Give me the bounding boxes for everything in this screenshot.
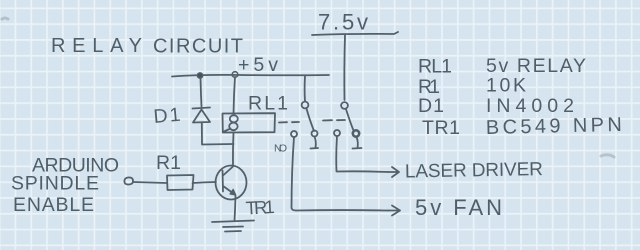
node input terminal — [124, 177, 133, 184]
diode D1 triangle — [193, 110, 210, 123]
transistor TR1 body — [216, 166, 247, 200]
wire +5v rail — [172, 75, 329, 77]
switch S2 NO terminal — [334, 130, 340, 136]
svg-text:BC549 NPN: BC549 NPN — [486, 114, 622, 139]
switch S1 NC stub — [311, 137, 319, 149]
wire S1 NO to fan arrow — [292, 137, 389, 211]
arrowhead 5v fan — [388, 206, 400, 216]
svg-text:ENABLE: ENABLE — [13, 194, 94, 216]
relay coil RL1 box — [223, 113, 276, 132]
switch S2 common terminal — [341, 102, 348, 109]
transistor TR1 collector stroke — [223, 167, 233, 176]
svg-text:NO: NO — [274, 143, 287, 155]
svg-text:+5v: +5v — [238, 54, 278, 76]
wire dashed actuation link — [279, 120, 345, 123]
pencil smudge top-left — [2, 18, 8, 19]
switch S1 blade — [307, 109, 315, 132]
wire diode to junction — [202, 123, 234, 145]
switch S1 NO terminal — [291, 131, 297, 137]
svg-text:D1: D1 — [418, 95, 444, 117]
svg-text:TR1: TR1 — [245, 196, 275, 218]
ground symbol — [212, 221, 254, 232]
resistor R1 box — [167, 175, 194, 190]
svg-text:LASER DRIVER: LASER DRIVER — [405, 159, 543, 182]
switch S1 common terminal — [302, 102, 309, 109]
switch S1 NC terminal — [312, 131, 318, 137]
svg-text:R1: R1 — [156, 152, 181, 174]
switch S2 NC stub — [353, 137, 362, 149]
node 7.5v supply bar — [312, 32, 398, 35]
svg-text:10K: 10K — [486, 75, 526, 97]
node junction D1 branch — [197, 73, 203, 79]
relay coil RL1 winding loops — [230, 115, 238, 122]
switch S2 blade — [346, 109, 354, 131]
pencil smudge right edge — [601, 155, 614, 157]
switch S1 common wire — [304, 76, 306, 102]
svg-text:RELAY: RELAY — [51, 35, 142, 57]
svg-text:RL1: RL1 — [418, 56, 452, 78]
svg-text:TR1: TR1 — [422, 117, 460, 139]
transistor TR1 base bar — [222, 171, 225, 192]
svg-text:SPINDLE: SPINDLE — [11, 173, 99, 195]
wire rail to diode D1 — [201, 78, 202, 107]
wire input to R1 — [133, 182, 167, 183]
wire S2 NO to laser driver arrow — [336, 136, 388, 172]
transistor TR1 emitter arrowhead — [230, 189, 236, 195]
arrowhead laser driver — [388, 167, 399, 177]
transistor TR1 emitter stroke — [223, 186, 235, 195]
wire 7.5v to switch common — [343, 35, 346, 100]
svg-text:7.5v: 7.5v — [318, 10, 368, 35]
svg-text:RL1: RL1 — [248, 93, 288, 115]
diode D1 cathode bar — [193, 108, 211, 109]
wire relay coil to transistor collector — [232, 133, 235, 166]
switch S2 NC terminal — [353, 130, 359, 136]
wire rail to relay coil — [234, 77, 236, 114]
wire emitter to ground — [235, 196, 236, 221]
node junction relay branch — [232, 72, 238, 78]
wire R1 to transistor base — [193, 182, 217, 183]
